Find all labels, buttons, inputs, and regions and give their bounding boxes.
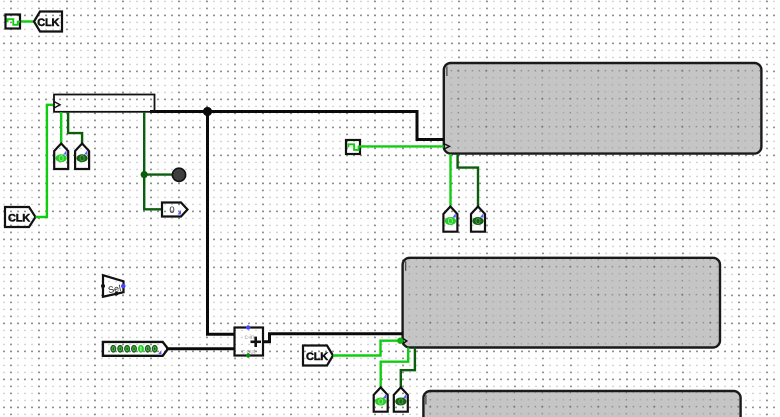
output pin LED2 [75,144,89,170]
svg-text:CLK: CLK [37,17,59,29]
subcircuit U5 (bottom gray box) [423,391,740,417]
clock CLK1 [6,15,21,29]
bus wire register Q to top box [150,112,444,140]
clock CLK2 [346,140,360,154]
subcircuit U2 (top gray box) [444,63,762,154]
adder U3 [235,325,264,357]
junction at middle box clock pin [397,338,403,344]
clock marker on middle box [403,339,407,344]
wire top box pin down dark [458,154,478,207]
svg-text:0: 0 [169,205,174,216]
clock marker on top box [444,144,450,150]
bus wire input pin to adder input B [166,347,235,350]
output pin LED3 [443,207,457,232]
tunnel CLK top-left [34,12,62,32]
register U1 [54,95,155,112]
wire clock1 to tunnel [20,20,34,22]
wire clock2 to top box [360,145,444,147]
wire register bit1 down [68,112,82,144]
svg-text:CLK: CLK [306,351,328,363]
output pin LED6 [394,387,408,411]
wire CLK tunnel to register clock [36,105,55,217]
wire middle box pin down dark to LED6 [401,348,415,388]
wire register bit0 down [60,112,62,144]
output pin LED1 [54,144,68,170]
output pin 0 [162,203,188,217]
tunnel CLK left [5,207,36,227]
wire register out down to pin 0 with branch to LED [144,112,161,209]
bus wire vertical down to adder input A [208,112,235,335]
svg-text:c in: c in [244,334,255,341]
bus wire adder output to middle box [263,334,403,342]
LED D1 [172,168,185,181]
output pin LED5 [374,387,388,411]
input pin value 0000100 [103,342,168,356]
wire middle box pin down bright to LED5 [381,348,409,388]
multiplexer MUX1 Sel [101,275,126,297]
wire top box pin down bright [449,154,451,207]
junction [141,171,148,178]
subcircuit U4 (middle gray box) [403,258,720,348]
wire clk bottom to middle box clock pin [333,341,400,356]
svg-text:CLK: CLK [8,213,30,225]
tunnel CLK bottom [303,346,333,366]
junction on bus [203,107,212,116]
output pin LED4 [471,207,485,232]
